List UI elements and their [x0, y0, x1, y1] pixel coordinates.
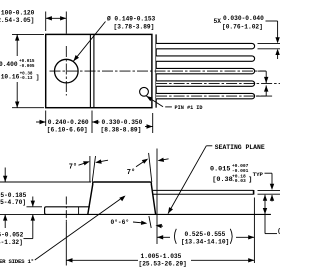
svg-text:(0.1: (0.1 — [277, 228, 280, 235]
svg-text:-0.005: -0.005 — [19, 64, 35, 69]
svg-text:[0.38: [0.38 — [212, 176, 232, 184]
svg-text:0.400: 0.400 — [0, 61, 18, 68]
svg-text:0.525-0.555: 0.525-0.555 — [185, 231, 226, 238]
svg-text:[8.38-8.89]: [8.38-8.89] — [101, 126, 142, 133]
svg-text:-0.13: -0.13 — [20, 76, 33, 81]
svg-text:[6.10-6.60]: [6.10-6.60] — [47, 126, 88, 133]
svg-text:SEATING PLANE: SEATING PLANE — [215, 144, 265, 151]
svg-text:0.240-0.260: 0.240-0.260 — [48, 119, 89, 126]
svg-text:Ø 0.149-0.153: Ø 0.149-0.153 — [107, 15, 156, 22]
svg-text:[3.78-3.89]: [3.78-3.89] — [114, 24, 155, 31]
svg-text:]: ] — [36, 74, 40, 81]
svg-text:0.175-0.185: 0.175-0.185 — [0, 192, 27, 199]
svg-text:[2.54-3.05]: [2.54-3.05] — [0, 17, 34, 24]
svg-text:[0.76-1.02]: [0.76-1.02] — [222, 24, 263, 31]
svg-text:TAPER SIDES 1°: TAPER SIDES 1° — [0, 258, 34, 265]
svg-text:0°-6°: 0°-6° — [111, 219, 130, 226]
svg-text:7°: 7° — [127, 168, 135, 177]
svg-text:[4.445-4.70]: [4.445-4.70] — [0, 199, 26, 206]
svg-text:7°: 7° — [69, 163, 77, 172]
svg-text:0.045-0.052: 0.045-0.052 — [0, 231, 24, 238]
svg-text:0.330-0.350: 0.330-0.350 — [102, 119, 143, 126]
svg-text:-0.03: -0.03 — [232, 178, 246, 184]
svg-text:[25.53-26.29]: [25.53-26.29] — [139, 261, 187, 268]
svg-text:TYP: TYP — [253, 171, 264, 178]
svg-text:1.005-1.035: 1.005-1.035 — [141, 253, 182, 260]
svg-text:0.030-0.040: 0.030-0.040 — [223, 15, 264, 22]
svg-text:[13.34-14.10]: [13.34-14.10] — [181, 239, 229, 246]
svg-text:PIN #1 ID: PIN #1 ID — [175, 105, 203, 111]
svg-text:5X: 5X — [214, 18, 222, 25]
svg-text:[1.14-1.32]: [1.14-1.32] — [0, 239, 23, 246]
svg-text:0.015: 0.015 — [210, 166, 230, 174]
svg-text:[10.16: [10.16 — [0, 74, 20, 81]
svg-text:0.100-0.120: 0.100-0.120 — [0, 10, 35, 17]
svg-text:-0.001: -0.001 — [232, 168, 249, 174]
